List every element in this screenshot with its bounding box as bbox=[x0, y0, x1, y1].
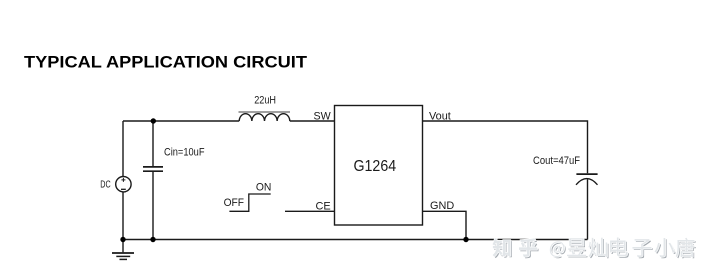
svg-text:TYPICAL APPLICATION CIRCUIT: TYPICAL APPLICATION CIRCUIT bbox=[24, 53, 308, 72]
svg-text:ON: ON bbox=[256, 181, 272, 193]
svg-text:DC: DC bbox=[100, 179, 111, 191]
svg-text:SW: SW bbox=[314, 111, 332, 123]
svg-text:GND: GND bbox=[430, 200, 454, 212]
svg-text:OFF: OFF bbox=[224, 197, 245, 209]
svg-text:Cin=10uF: Cin=10uF bbox=[164, 146, 205, 158]
svg-text:Cout=47uF: Cout=47uF bbox=[533, 155, 580, 167]
svg-text:CE: CE bbox=[316, 201, 331, 213]
svg-text:G1264: G1264 bbox=[354, 158, 397, 175]
svg-text:22uH: 22uH bbox=[254, 95, 276, 107]
svg-text:Vout: Vout bbox=[429, 110, 451, 122]
